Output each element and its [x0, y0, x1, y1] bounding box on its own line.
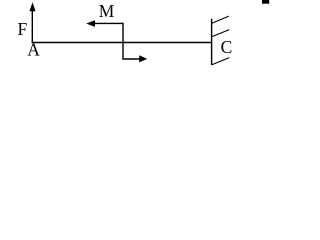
- label M: [99, 1, 115, 21]
- svg-text:A: A: [27, 39, 40, 59]
- beam AC: [32, 42, 213, 44]
- label C: [221, 37, 233, 57]
- fixed support wall line at C: [211, 19, 213, 65]
- artifact mark top-right corner: [262, 0, 269, 4]
- force F arrow: [29, 2, 35, 42]
- label A: [27, 39, 40, 59]
- label F: [18, 19, 28, 39]
- wall hatch 2: [212, 30, 229, 37]
- moment M couple connector: [122, 23, 124, 59]
- svg-text:M: M: [99, 1, 115, 21]
- moment M couple top arrow: [86, 20, 123, 27]
- wall hatch 1: [212, 16, 229, 23]
- wall hatch 3: [212, 58, 230, 65]
- svg-text:F: F: [18, 19, 28, 39]
- svg-text:C: C: [221, 37, 233, 57]
- moment M couple bottom arrow: [122, 55, 147, 62]
